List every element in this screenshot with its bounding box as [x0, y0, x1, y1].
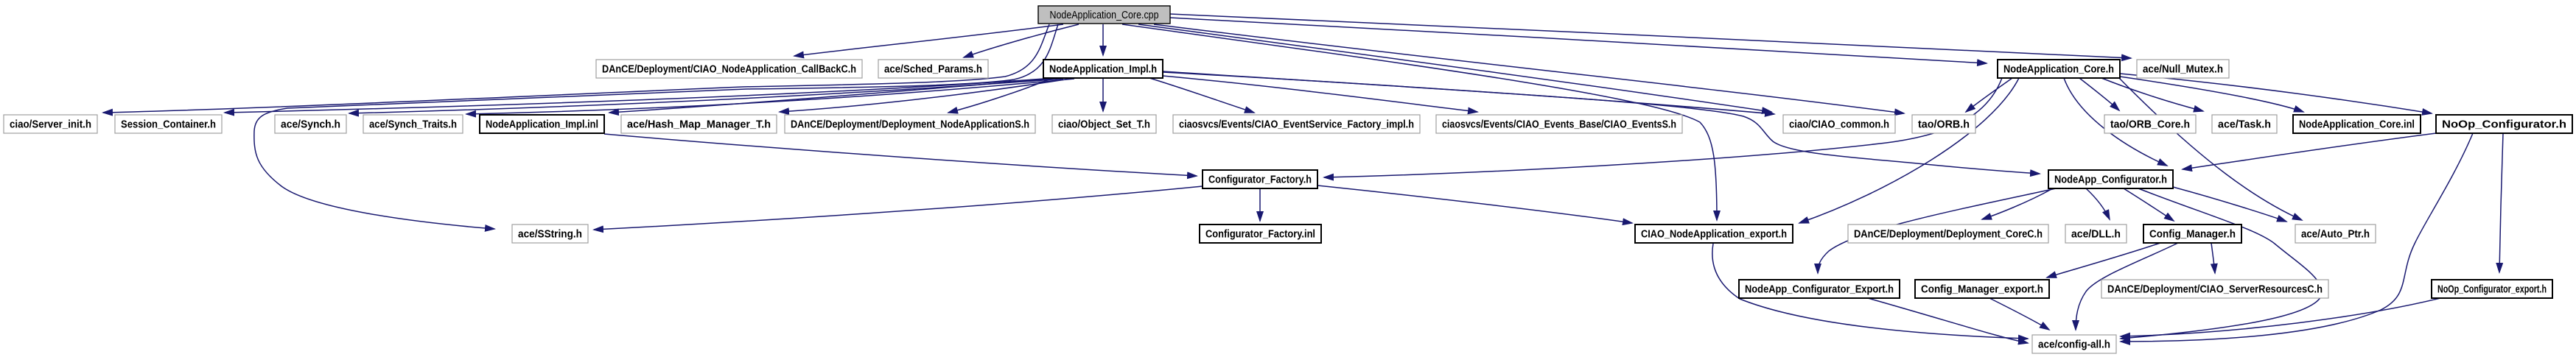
edge NodeApplication_Core.cpp -> CIAO_NodeApplication_CallBackC.h — [794, 24, 1063, 56]
edge NodeApp_Configurator.h -> ace/DLL.h — [2086, 188, 2110, 219]
edge NodeApplication_Impl.h -> CIAO_EventsS.h — [1163, 76, 1477, 112]
edge Config_Manager.h -> Config_Manager_export.h — [2047, 243, 2160, 278]
edge NodeApplication_Core.cpp -> ciao/Server_init.h — [103, 24, 1049, 113]
svg-text:NodeApp_Configurator_Export.h: NodeApp_Configurator_Export.h — [1745, 284, 1894, 296]
svg-text:tao/ORB_Core.h: tao/ORB_Core.h — [2110, 119, 2190, 131]
node tao/ORB_Core.h — [2104, 115, 2196, 133]
edge NodeApp_Configurator_Export.h -> ace/config-all.h — [1868, 298, 2028, 343]
edge NodeApp_Configurator.h -> Deployment_CoreC.h — [1982, 188, 2053, 219]
edge NodeApplication_Core.cpp -> tao/ORB.h — [1154, 24, 1904, 113]
svg-text:NoOp_Configurator.h: NoOp_Configurator.h — [2442, 119, 2566, 131]
node NodeApplication_Core.cpp (root) — [1038, 6, 1170, 24]
svg-text:ciao/CIAO_common.h: ciao/CIAO_common.h — [1789, 119, 1889, 131]
edge NodeApplication_Core.cpp -> NodeApplication_Core.h — [1170, 18, 1987, 63]
node NodeApp_Configurator.h — [2048, 170, 2173, 188]
edge NodeApplication_Core.cpp -> ace/SString.h — [254, 24, 1058, 229]
edge Config_Manager_export.h -> ace/config-all.h — [1989, 298, 2049, 330]
edge NodeApplication_Impl.h -> Session_Container.h — [225, 78, 1054, 113]
node ace/config-all.h — [2032, 335, 2116, 353]
node ace/Task.h — [2212, 115, 2277, 133]
node Configurator_Factory.inl — [1200, 225, 1321, 243]
edge NodeApplication_Impl.h -> ace/Hash_Map_Manager_T.h — [780, 79, 1070, 112]
svg-text:DAnCE/Deployment/CIAO_NodeAppl: DAnCE/Deployment/CIAO_NodeApplication_Ca… — [602, 64, 856, 76]
svg-text:ace/Hash_Map_Manager_T.h: ace/Hash_Map_Manager_T.h — [627, 119, 771, 131]
edge NodeApplication_Impl.h -> CIAO_EventService_Factory_impl.h — [1149, 78, 1254, 113]
node ace/DLL.h — [2065, 225, 2127, 243]
node DAnCE/Deployment/Deployment_NodeApplicationS.h — [785, 115, 1035, 133]
node DAnCE/Deployment/CIAO_ServerResourcesC.h — [2101, 280, 2328, 298]
edge NodeApplication_Core.h -> tao/ORB.h — [1966, 78, 2012, 112]
svg-text:ace/Task.h: ace/Task.h — [2218, 119, 2271, 131]
edge NodeApplication_Impl.h -> ciao/CIAO_common.h — [1163, 72, 1774, 114]
node NodeApplication_Impl.inl — [480, 115, 604, 133]
svg-text:ace/DLL.h: ace/DLL.h — [2071, 229, 2121, 241]
node NodeApplication_Impl.h — [1043, 60, 1163, 78]
node ciaosvcs/Events/CIAO_EventService_Factory_impl.h — [1173, 115, 1420, 133]
edge NodeApplication_Core.h -> Configurator_Factory.h — [1324, 78, 2002, 177]
edge NoOp_Configurator.h -> NoOp_Configurator_export.h — [2499, 133, 2503, 272]
edge NodeApp_Configurator.h -> ace/config-all.h — [2121, 188, 2323, 339]
svg-text:ciaosvcs/Events/CIAO_Events_Ba: ciaosvcs/Events/CIAO_Events_Base/CIAO_Ev… — [1442, 119, 1676, 131]
svg-text:Config_Manager.h: Config_Manager.h — [2149, 229, 2236, 241]
edge NodeApplication_Core.cpp -> CIAO_NodeApplication_export.h — [1122, 24, 1717, 220]
edge NodeApp_Configurator.h -> NodeApp_Configurator_Export.h — [1818, 188, 2056, 273]
edge NodeApp_Configurator.h -> ace/Auto_Ptr.h — [2173, 187, 2286, 222]
edge NoOp_Configurator.h -> ace/config-all.h — [2121, 133, 2473, 342]
edge NodeApplication_Impl.h -> ace/Synch.h — [349, 79, 1063, 113]
svg-text:NodeApplication_Core.cpp: NodeApplication_Core.cpp — [1050, 10, 1159, 21]
svg-text:ace/Auto_Ptr.h: ace/Auto_Ptr.h — [2301, 229, 2370, 241]
node NodeApp_Configurator_Export.h — [1739, 280, 1900, 298]
node ace/Sched_Params.h — [878, 60, 988, 78]
node Session_Container.h — [115, 115, 222, 133]
edge Configurator_Factory.h -> ace/SString.h — [594, 186, 1203, 230]
edge NoOp_Configurator_export.h -> ace/config-all.h — [2121, 298, 2440, 336]
svg-text:Configurator_Factory.inl: Configurator_Factory.inl — [1205, 229, 1315, 241]
node Configurator_Factory.h — [1203, 170, 1317, 188]
edge NodeApplication_Core.cpp -> NodeApplication_Impl.h — [1102, 24, 1104, 55]
svg-text:Config_Manager_export.h: Config_Manager_export.h — [1921, 284, 2043, 296]
svg-text:ciao/Object_Set_T.h: ciao/Object_Set_T.h — [1058, 119, 1150, 131]
node ace/Synch_Traits.h — [363, 115, 463, 133]
edge NodeApplication_Impl.h -> NodeApp_Configurator.h — [1163, 71, 2040, 174]
edge CIAO_NodeApplication_export.h -> ace/config-all.h — [1712, 244, 2028, 339]
svg-text:DAnCE/Deployment/Deployment_No: DAnCE/Deployment/Deployment_NodeApplicat… — [791, 119, 1029, 131]
node ciao/Object_Set_T.h — [1052, 115, 1156, 133]
edge Config_Manager.h -> CIAO_ServerResourcesC.h — [2211, 243, 2215, 273]
svg-text:NodeApplication_Core.inl: NodeApplication_Core.inl — [2299, 119, 2415, 131]
node ace/Auto_Ptr.h — [2295, 225, 2376, 243]
edge NodeApplication_Core.h -> tao/ORB_Core.h — [2079, 78, 2119, 110]
node ace/Synch.h — [275, 115, 346, 133]
svg-text:NodeApplication_Core.h: NodeApplication_Core.h — [2003, 64, 2114, 76]
edge NodeApplication_Impl.h -> ace/Synch_Traits.h — [466, 79, 1074, 114]
svg-text:ciaosvcs/Events/CIAO_EventServ: ciaosvcs/Events/CIAO_EventService_Factor… — [1179, 119, 1414, 131]
svg-text:ace/Synch.h: ace/Synch.h — [281, 119, 340, 131]
svg-text:tao/ORB.h: tao/ORB.h — [1918, 119, 1970, 131]
svg-text:ace/Sched_Params.h: ace/Sched_Params.h — [884, 64, 982, 76]
edge NodeApplication_Core.h -> NoOp_Configurator.h — [2120, 74, 2432, 113]
edge Configurator_Factory.h -> CIAO_NodeApplication_export.h — [1317, 185, 1632, 223]
svg-text:DAnCE/Deployment/CIAO_ServerRe: DAnCE/Deployment/CIAO_ServerResourcesC.h — [2107, 284, 2323, 296]
node Config_Manager.h — [2143, 225, 2241, 243]
node ace/Null_Mutex.h — [2137, 60, 2229, 78]
svg-text:Session_Container.h: Session_Container.h — [121, 119, 216, 131]
node NoOp_Configurator_export.h — [2432, 280, 2552, 298]
edge NodeApplication_Impl.inl -> Configurator_Factory.h — [604, 134, 1197, 176]
edge NodeApplication_Core.cpp -> ace/Null_Mutex.h — [1170, 14, 2131, 58]
node CIAO_NodeApplication_export.h — [1635, 225, 1793, 243]
edge Config_Manager.h -> ace/config-all.h — [2076, 243, 2178, 330]
edge Configurator_Factory.h -> Configurator_Factory.inl — [1259, 188, 1261, 221]
node DAnCE/Deployment/CIAO_NodeApplication_CallBackC.h — [596, 60, 862, 78]
svg-text:NodeApplication_Impl.inl: NodeApplication_Impl.inl — [486, 119, 598, 131]
edge NodeApplication_Core.cpp -> ace/Sched_Params.h — [964, 24, 1079, 57]
svg-text:ace/Null_Mutex.h: ace/Null_Mutex.h — [2143, 64, 2223, 76]
svg-text:NodeApp_Configurator.h: NodeApp_Configurator.h — [2054, 174, 2167, 186]
edge NodeApplication_Impl.h -> Deployment_NodeApplicationS.h — [948, 78, 1052, 113]
edge NodeApplication_Impl.h -> NodeApplication_Impl.inl — [609, 78, 1060, 113]
node DAnCE/Deployment/Deployment_CoreC.h — [1848, 225, 2048, 243]
edge NodeApplication_Core.h -> CIAO_NodeApplication_export.h — [1799, 78, 2019, 223]
edge NodeApplication_Impl.h -> ciao/Object_Set_T.h — [1102, 78, 1104, 111]
node ace/SString.h — [512, 225, 588, 243]
node tao/ORB.h — [1912, 115, 1975, 133]
node ciao/CIAO_common.h — [1783, 115, 1895, 133]
svg-text:ace/SString.h: ace/SString.h — [518, 229, 582, 241]
node Config_Manager_export.h — [1915, 280, 2049, 298]
node ciaosvcs/Events/CIAO_Events_Base/CIAO_EventsS.h — [1436, 115, 1682, 133]
edge NodeApplication_Core.cpp -> ciao/CIAO_common.h — [1138, 24, 1771, 112]
node ace/Hash_Map_Manager_T.h — [621, 115, 777, 133]
edge NodeApplication_Core.h -> NodeApplication_Core.inl — [2120, 77, 2303, 112]
node NoOp_Configurator.h — [2436, 115, 2572, 133]
edge NodeApp_Configurator.h -> Config_Manager.h — [2124, 188, 2174, 221]
edge NodeApplication_Core.h -> ace/Auto_Ptr.h — [2119, 78, 2302, 220]
edge NodeApplication_Core.h -> NodeApp_Configurator.h — [2064, 78, 2167, 166]
svg-text:NoOp_Configurator_export.h: NoOp_Configurator_export.h — [2437, 284, 2547, 296]
svg-text:Configurator_Factory.h: Configurator_Factory.h — [1208, 174, 1312, 186]
edge NoOp_Configurator.h -> NodeApp_Configurator.h — [2183, 133, 2436, 169]
node NodeApplication_Core.inl — [2293, 115, 2421, 133]
svg-text:CIAO_NodeApplication_export.h: CIAO_NodeApplication_export.h — [1641, 229, 1787, 241]
svg-text:DAnCE/Deployment/Deployment_Co: DAnCE/Deployment/Deployment_CoreC.h — [1854, 229, 2043, 241]
svg-text:ciao/Server_init.h: ciao/Server_init.h — [10, 119, 91, 131]
node NodeApplication_Core.h — [1998, 60, 2120, 78]
edge NodeApplication_Core.h -> ace/Task.h — [2101, 78, 2203, 111]
svg-text:ace/Synch_Traits.h: ace/Synch_Traits.h — [369, 119, 457, 131]
svg-text:NodeApplication_Impl.h: NodeApplication_Impl.h — [1049, 64, 1157, 76]
svg-text:ace/config-all.h: ace/config-all.h — [2038, 339, 2110, 351]
node ciao/Server_init.h — [4, 115, 97, 133]
